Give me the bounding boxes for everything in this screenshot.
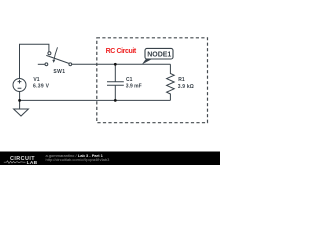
svg-text:LAB: LAB	[27, 160, 38, 165]
svg-text:http://circuitlab.com/c/9pqva4: http://circuitlab.com/c/9pqva4fh/lab3	[46, 157, 111, 162]
